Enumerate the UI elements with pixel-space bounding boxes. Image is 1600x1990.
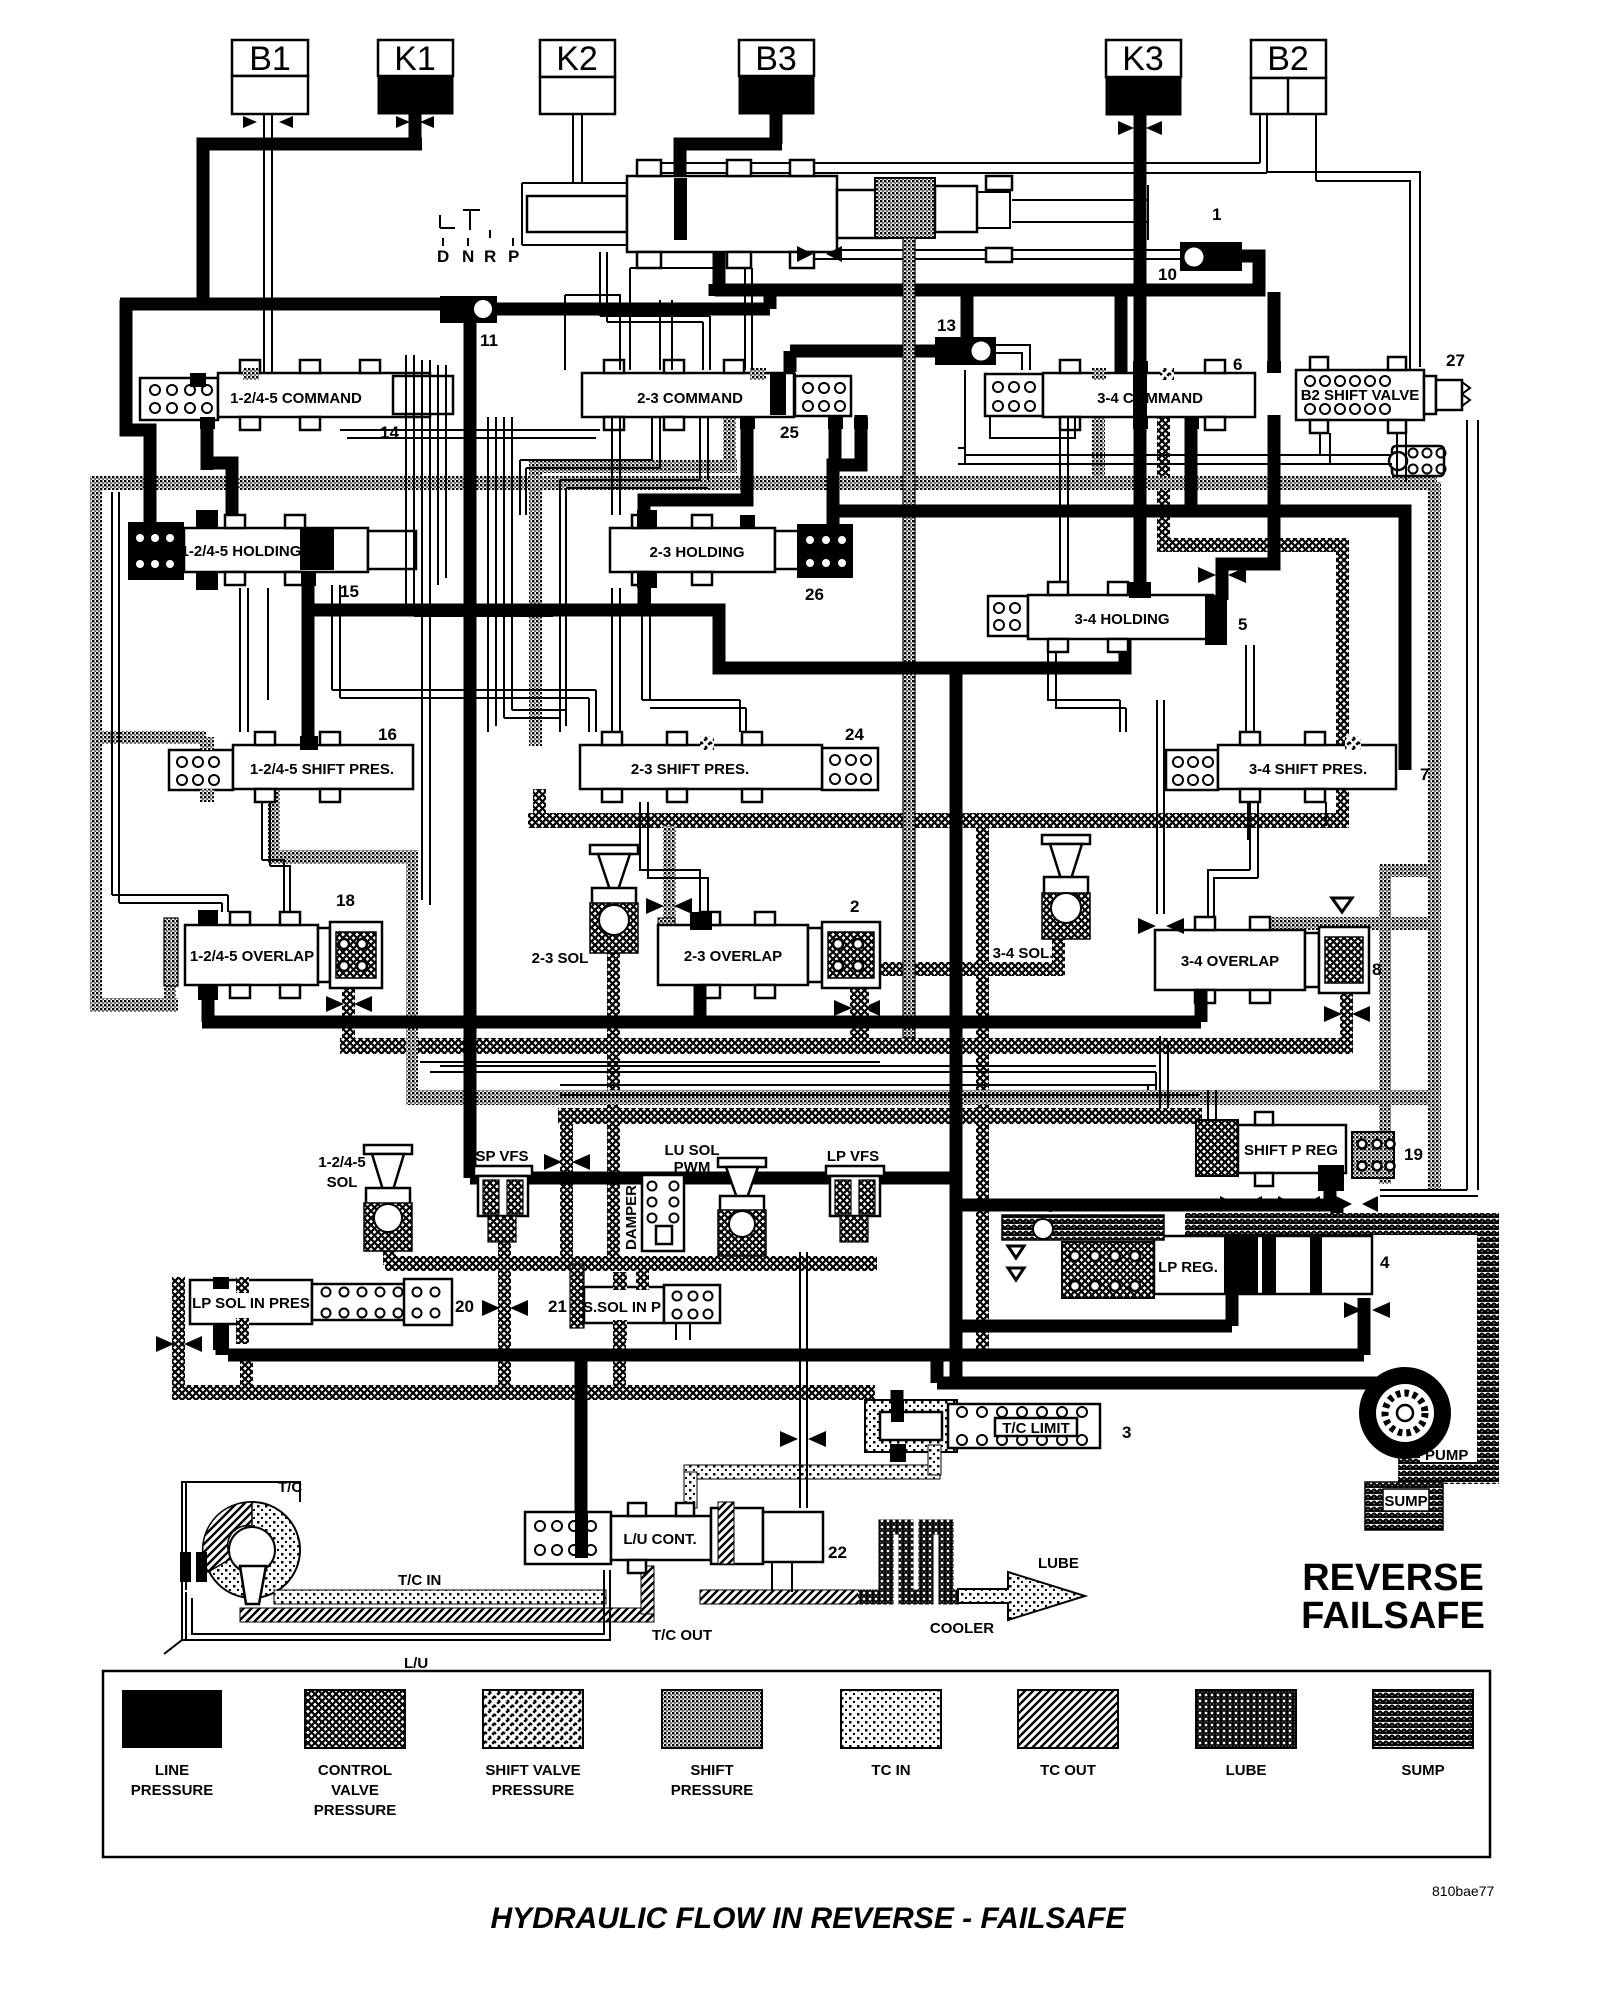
pipe: valve20 left rope vertical bbox=[172, 1277, 185, 1400]
svg-text:1-2/4-5 COMMAND: 1-2/4-5 COMMAND bbox=[230, 390, 362, 407]
svg-text:DAMPER: DAMPER bbox=[623, 1185, 640, 1250]
orifice on riser 18 bbox=[326, 996, 372, 1012]
pipe: rope vertical x978 R1 to bottom bbox=[976, 828, 989, 1353]
svg-text:LP REG.: LP REG. bbox=[1158, 1259, 1218, 1276]
svg-text:24: 24 bbox=[845, 725, 864, 744]
orifice trio right of shift p reg bbox=[1350, 1128, 1394, 1142]
wire: riser x1274 to 3-4 command bbox=[1268, 292, 1281, 372]
wire: left thin bundle bbox=[406, 355, 446, 616]
svg-text:LUBE: LUBE bbox=[1226, 1762, 1267, 1779]
pipe: control valve bus R2 bbox=[340, 1038, 1353, 1054]
svg-text:LP VFS: LP VFS bbox=[827, 1148, 879, 1165]
wire: line to pump bbox=[897, 1355, 1402, 1412]
svg-text:1: 1 bbox=[1212, 205, 1221, 224]
orifice on 2-3 overlap gray feed bbox=[646, 898, 692, 914]
pipe: 1-2/4-5 sol drop to R4 bbox=[383, 1240, 396, 1265]
orifice arrows under B1 bbox=[243, 116, 293, 128]
svg-text:FAILSAFE: FAILSAFE bbox=[1301, 1595, 1485, 1637]
svg-text:1-2/4-5 SHIFT PRES.: 1-2/4-5 SHIFT PRES. bbox=[250, 761, 394, 778]
wire: feed from command to holding15 left bbox=[207, 417, 232, 515]
lube arrow bbox=[958, 1572, 1085, 1620]
svg-text:B3: B3 bbox=[755, 40, 797, 78]
svg-text:T/C IN: T/C IN bbox=[398, 1572, 441, 1589]
orifice on riser 8 bbox=[1324, 1006, 1370, 1022]
wire: y1205 horizontal to sump bbox=[956, 1162, 1337, 1222]
orifice on valve20 vertical bbox=[156, 1336, 202, 1352]
legend: lube bbox=[1196, 1690, 1296, 1748]
pipe: sump loop around pump bbox=[1185, 1213, 1477, 1235]
svg-text:B2 SHIFT VALVE: B2 SHIFT VALVE bbox=[1301, 387, 1420, 404]
svg-text:P: P bbox=[508, 247, 519, 266]
orifice on 3-4 holding feed bbox=[1198, 567, 1246, 583]
svg-text:5: 5 bbox=[1238, 615, 1247, 634]
box B2 bbox=[1251, 40, 1326, 114]
svg-text:810bae77: 810bae77 bbox=[1432, 1883, 1495, 1899]
node 11 bbox=[440, 296, 498, 350]
pipe: control valve bus R5 bbox=[175, 1385, 875, 1400]
legend: line pressure bbox=[122, 1690, 222, 1748]
valve 18: 1-2/4-5 OVERLAP bbox=[185, 912, 318, 998]
svg-text:T/C: T/C bbox=[278, 1479, 302, 1496]
wire: B1 feed thin pair bbox=[264, 114, 272, 385]
svg-text:2-3 SOL: 2-3 SOL bbox=[532, 950, 589, 967]
node 10 bbox=[1158, 242, 1242, 284]
pipe: riser overlap2 spring to R2 bbox=[850, 972, 863, 1042]
svg-text:CONTROL: CONTROL bbox=[318, 1762, 392, 1779]
node 9 check ball bbox=[1002, 1197, 1164, 1280]
svg-text:PRESSURE: PRESSURE bbox=[492, 1782, 575, 1799]
valve 15: 1-2/4-5 HOLDING bbox=[181, 515, 416, 601]
svg-text:2-3 OVERLAP: 2-3 OVERLAP bbox=[684, 948, 782, 965]
wire: thin pair to B2 shift valve top bbox=[1267, 172, 1420, 370]
svg-text:PRESSURE: PRESSURE bbox=[671, 1782, 754, 1799]
wire: shift pres to overlap links bbox=[262, 802, 1258, 917]
pipe: gray under valve16 to x408 bbox=[268, 760, 280, 860]
svg-text:LINE: LINE bbox=[155, 1762, 189, 1779]
spring box 18 bbox=[318, 891, 382, 988]
wire: bundle under 2-3 command left bbox=[488, 417, 512, 732]
solenoid LP VFS bbox=[826, 1148, 884, 1242]
node 13 bbox=[935, 316, 996, 365]
orifice arrows under K3 bbox=[1118, 121, 1162, 135]
wire: left drop to 1-2/4-5 holding solenoid bbox=[126, 300, 150, 528]
svg-text:R: R bbox=[484, 247, 496, 266]
pipe: gray 3-4 command drop bbox=[1092, 417, 1105, 481]
svg-text:PRESSURE: PRESSURE bbox=[131, 1782, 214, 1799]
pipe: SP VFS drop bbox=[498, 1240, 511, 1392]
svg-text:3-4 HOLDING: 3-4 HOLDING bbox=[1074, 611, 1169, 628]
wire: B3 drop bbox=[680, 114, 782, 190]
wire: right long y511 bbox=[829, 415, 1405, 770]
cooler serpentine bbox=[858, 1527, 960, 1597]
legend: sump bbox=[1373, 1690, 1473, 1748]
pipe: 3-4 sol output bbox=[1052, 930, 1065, 965]
orifice on R3-R4 riser bbox=[544, 1154, 590, 1170]
wire: node13 thin pair to 3-4 command bbox=[996, 345, 1030, 370]
port: K3 land through 3-4 command bbox=[1133, 373, 1147, 417]
svg-text:SOL: SOL bbox=[327, 1174, 358, 1191]
svg-text:N: N bbox=[462, 247, 474, 266]
svg-text:3-4 SOL.: 3-4 SOL. bbox=[993, 945, 1054, 962]
wire: 2-3 command right branch bbox=[833, 415, 861, 528]
solenoid screen block of 3-4 shift pres bbox=[1166, 750, 1218, 790]
wire: riser x1121 to 3-4 command bbox=[1115, 292, 1128, 372]
wire: shift pressure drop from manual valve bbox=[903, 238, 915, 1038]
svg-text:K3: K3 bbox=[1122, 40, 1164, 78]
wire: K3 through 3-4 command to holding bbox=[1134, 415, 1147, 605]
svg-text:3: 3 bbox=[1122, 1423, 1131, 1442]
svg-text:PRESSURE: PRESSURE bbox=[314, 1802, 397, 1819]
solenoid screen w/ ball below B2 shift valve bbox=[1389, 446, 1446, 476]
solenoid LU SOL PWM bbox=[665, 1142, 767, 1256]
svg-text:15: 15 bbox=[340, 582, 359, 601]
wire: y1178 horizontal bbox=[470, 1172, 956, 1185]
svg-text:6: 6 bbox=[1233, 355, 1242, 374]
svg-text:L/U CONT.: L/U CONT. bbox=[623, 1531, 696, 1548]
wire: K1 drop bbox=[409, 114, 422, 144]
wire: long mid horizontals bbox=[420, 1062, 1156, 1090]
wire: mesh under 1-2/4-5 command bbox=[240, 585, 596, 732]
svg-text:SP VFS: SP VFS bbox=[475, 1148, 528, 1165]
pipe: rope vertical 2-3 sol bbox=[607, 950, 620, 1260]
svg-text:3-4 SHIFT PRES.: 3-4 SHIFT PRES. bbox=[1249, 761, 1367, 778]
spring box 2 bbox=[808, 897, 880, 988]
wire: node11 long vertical drop bbox=[464, 323, 477, 1178]
svg-text:SHIFT: SHIFT bbox=[690, 1762, 733, 1779]
svg-text:D: D bbox=[437, 247, 449, 266]
valve 6: 3-4 COMMAND bbox=[1043, 355, 1255, 430]
svg-text:18: 18 bbox=[336, 891, 355, 910]
orifice on SP VFS drop bbox=[482, 1300, 528, 1316]
pipe: T/C IN line bbox=[274, 1590, 606, 1604]
svg-text:19: 19 bbox=[1404, 1145, 1423, 1164]
svg-text:11: 11 bbox=[480, 331, 498, 350]
solenoid screen block of 3-4 command bbox=[985, 374, 1043, 416]
pipe: valve21 drop bbox=[613, 1340, 626, 1392]
wire: drop to L/U CONT bbox=[575, 1355, 588, 1556]
svg-text:20: 20 bbox=[455, 1297, 474, 1316]
orifice trio near valve19 top bbox=[1220, 1196, 1378, 1212]
legend: control valve pressure bbox=[305, 1690, 405, 1748]
pipe: control valve bus R3 bbox=[558, 1108, 1202, 1124]
pipe: gray horizontal y460 under 2-3 command bbox=[529, 460, 737, 473]
check arrows on gray mid bbox=[1332, 898, 1352, 946]
pump bbox=[1359, 1367, 1468, 1464]
pipe: control valve bus R4 bbox=[385, 1256, 877, 1271]
pipe: T/C OUT line bbox=[240, 1608, 654, 1622]
box K3 bbox=[1106, 40, 1181, 115]
valve 4: LP REG. bbox=[1062, 1236, 1390, 1298]
solenoid 1-2/4-5 SOL bbox=[318, 1145, 412, 1251]
solenoid block (black) of 1-2/4-5 holding bbox=[128, 522, 184, 580]
svg-text:27: 27 bbox=[1446, 351, 1465, 370]
solenoid screen block of 1-2/4-5 command bbox=[140, 378, 218, 420]
svg-text:2-3 HOLDING: 2-3 HOLDING bbox=[649, 544, 744, 561]
wire: node13 to 2-3 command bbox=[790, 351, 941, 372]
wire: B2 shift valve right thin drop bbox=[1467, 420, 1478, 1190]
pipe: gray feed 2-3 overlap left cap bbox=[663, 826, 676, 926]
gear selector labels D N R P bbox=[437, 230, 519, 266]
solenoid screen block of 1-2/4-5 shift pres bbox=[169, 750, 233, 790]
port: drop into L/U CONT bbox=[575, 1512, 588, 1558]
port: valve14 bottom bbox=[200, 417, 215, 429]
pipe: shift pressure long G1 bbox=[92, 476, 1437, 490]
wire: valve15 riser to shift pres 16 bbox=[302, 572, 315, 745]
legend: shift valve pressure bbox=[483, 1690, 583, 1748]
svg-text:LP SOL IN PRES: LP SOL IN PRES bbox=[192, 1295, 310, 1312]
svg-text:2-3 SHIFT PRES.: 2-3 SHIFT PRES. bbox=[631, 761, 749, 778]
valve 20: LP SOL IN PRES bbox=[190, 1277, 474, 1350]
valve 7: 3-4 SHIFT PRES. bbox=[1218, 732, 1429, 802]
spool pattern block bbox=[875, 178, 935, 238]
pipe: gray long G2 bbox=[406, 1090, 1436, 1105]
svg-text:3-4 OVERLAP: 3-4 OVERLAP bbox=[1181, 953, 1279, 970]
wire: black ports on holding 26 bbox=[637, 510, 657, 528]
wire: holding row links bbox=[642, 588, 1126, 732]
wire: main mid horizontal to 3-4 holding bbox=[308, 610, 1125, 668]
pipe: rope riser 2-3 shift pres to R1 bbox=[533, 789, 546, 819]
svg-text:HYDRAULIC FLOW IN REVERSE - FA: HYDRAULIC FLOW IN REVERSE - FAILSAFE bbox=[490, 1902, 1126, 1935]
svg-text:VALVE: VALVE bbox=[331, 1782, 379, 1799]
legend: tc in bbox=[841, 1690, 941, 1748]
valve 8: 3-4 OVERLAP bbox=[1155, 917, 1305, 1003]
svg-text:PWM: PWM bbox=[674, 1159, 711, 1176]
wire: riser to node13 bbox=[961, 296, 974, 337]
svg-text:B1: B1 bbox=[249, 40, 291, 78]
valve 27: B2 SHIFT VALVE bbox=[1296, 351, 1470, 433]
svg-text:21: 21 bbox=[548, 1297, 567, 1316]
port: holding valves bbox=[301, 572, 316, 586]
valve 2: 2-3 OVERLAP bbox=[658, 912, 808, 998]
pipe: gray to valve16 bbox=[92, 731, 206, 744]
sump box bbox=[1365, 1482, 1443, 1530]
svg-text:TC OUT: TC OUT bbox=[1040, 1762, 1096, 1779]
damper bbox=[623, 1175, 684, 1251]
svg-text:LUBE: LUBE bbox=[1038, 1555, 1079, 1572]
wire: L/U thin loop bbox=[186, 1570, 610, 1640]
wire: thin pair LP VFS to valve22 w/ orifice bbox=[800, 1252, 807, 1508]
orifice on manual valve to node10 line bbox=[797, 246, 842, 262]
manual valve body bbox=[522, 160, 1221, 268]
port: valve25 ports bbox=[740, 417, 755, 429]
wire: K3 drop bbox=[1134, 114, 1147, 372]
wire: long thin pair valve1 to B2 bbox=[645, 163, 1267, 173]
pipe: U under overlap 18 bbox=[90, 998, 178, 1012]
svg-text:16: 16 bbox=[378, 725, 397, 744]
wire: mesh horizontals under command row bbox=[340, 430, 600, 718]
pipe: gray right bus vertical bbox=[1428, 482, 1441, 1190]
svg-text:K2: K2 bbox=[556, 40, 598, 78]
svg-text:2: 2 bbox=[850, 897, 859, 916]
svg-text:13: 13 bbox=[937, 316, 956, 335]
pipe: tcin riser to t/c limit bbox=[684, 1465, 940, 1479]
svg-text:LU SOL: LU SOL bbox=[665, 1142, 720, 1159]
svg-text:TC IN: TC IN bbox=[871, 1762, 910, 1779]
wire: mesh under 3-4 command bbox=[990, 417, 1254, 914]
wire: big vertical x956 bbox=[950, 668, 963, 1383]
svg-text:1-2/4-5: 1-2/4-5 bbox=[318, 1154, 366, 1171]
svg-text:SUMP: SUMP bbox=[1384, 1493, 1427, 1510]
port: valve6 ports bbox=[1133, 361, 1148, 373]
wire: black cap right of 3-4 holding bbox=[1205, 595, 1227, 645]
orifice on riser 2 bbox=[834, 1000, 880, 1016]
svg-text:1-2/4-5 HOLDING: 1-2/4-5 HOLDING bbox=[181, 543, 302, 560]
svg-text:SHIFT P REG: SHIFT P REG bbox=[1244, 1142, 1338, 1159]
svg-text:1-2/4-5 OVERLAP: 1-2/4-5 OVERLAP bbox=[190, 948, 314, 965]
orifice arrows under K1 bbox=[396, 116, 434, 128]
wire: main bottom line bbox=[222, 1298, 1364, 1355]
wire: valve1 lower thin mesh bbox=[600, 252, 752, 370]
svg-text:14: 14 bbox=[380, 423, 399, 442]
manual valve detent lever bbox=[440, 210, 480, 230]
wire: thin pair manual valve to node10 bbox=[790, 250, 1183, 259]
valve 5: 3-4 HOLDING bbox=[1028, 582, 1247, 652]
orifice on 3-4 overlap feed bbox=[1138, 918, 1184, 934]
wire: B2 thin drops bbox=[1260, 114, 1316, 181]
pipe: riser overlap18 spring to R2 bbox=[342, 985, 355, 1043]
T/C assembly bbox=[164, 1479, 302, 1654]
svg-text:K1: K1 bbox=[394, 40, 436, 78]
pipe: control valve bus R1 bbox=[528, 813, 1349, 828]
wire: thin pair from screen to left bbox=[958, 370, 1392, 464]
spring box 8 bbox=[1305, 927, 1381, 993]
svg-text:25: 25 bbox=[780, 423, 799, 442]
svg-text:4: 4 bbox=[1380, 1253, 1390, 1272]
svg-text:7: 7 bbox=[1420, 765, 1429, 784]
wire: y1326 LP REG feed bbox=[956, 1290, 1232, 1326]
wire: left bus thin pair bbox=[112, 492, 228, 912]
legend: shift pressure bbox=[662, 1690, 762, 1748]
solenoid 3-4 SOL bbox=[993, 835, 1090, 962]
wire: thick ports on holding 15 bbox=[196, 510, 218, 528]
wire: mesh under 2-3 command bbox=[520, 417, 708, 732]
port: manual valve B3 land bbox=[674, 178, 687, 240]
valve 24: 2-3 SHIFT PRES. bbox=[580, 725, 864, 802]
wire: 2-3 holding stub bbox=[638, 578, 651, 612]
valve 22: L/U CONT. bbox=[525, 1502, 847, 1592]
pipe: gray vertical x529 to 2-3 shift pres bbox=[529, 462, 542, 746]
pipe: rope stub below R5 bbox=[240, 1358, 253, 1388]
solenoid screen block of 3-4 holding bbox=[988, 596, 1028, 636]
svg-text:10: 10 bbox=[1158, 265, 1177, 284]
svg-text:L/U: L/U bbox=[404, 1655, 428, 1672]
valve 3: T/C LIMIT bbox=[865, 1400, 1131, 1462]
svg-text:T/C LIMIT: T/C LIMIT bbox=[1002, 1420, 1070, 1437]
svg-text:S.SOL IN P: S.SOL IN P bbox=[583, 1299, 661, 1316]
wire: K2 feed thin pair bbox=[573, 114, 582, 182]
valve 21: S.SOL IN P bbox=[548, 1262, 720, 1340]
orifice on LP REG right riser bbox=[1344, 1302, 1390, 1318]
wire: misc around valve19 bbox=[1160, 1036, 1478, 1196]
port: drop into T/C LIMIT bbox=[891, 1400, 904, 1422]
svg-text:9: 9 bbox=[1046, 1197, 1055, 1216]
svg-text:2-3 COMMAND: 2-3 COMMAND bbox=[637, 390, 743, 407]
valve 16: 1-2/4-5 SHIFT PRES. bbox=[233, 725, 413, 802]
wire: node11 to node10 stepped main bbox=[497, 246, 1259, 309]
wire: 2-3 command to 2-3 holding pi bbox=[644, 415, 747, 524]
svg-text:REVERSE: REVERSE bbox=[1302, 1557, 1484, 1599]
svg-text:22: 22 bbox=[828, 1543, 847, 1562]
svg-text:SUMP: SUMP bbox=[1401, 1762, 1444, 1779]
svg-text:26: 26 bbox=[805, 585, 824, 604]
box B3 bbox=[739, 40, 814, 114]
pipe: riser overlap8 spring to R2 bbox=[1340, 990, 1353, 1042]
solenoid 2-3 SOL bbox=[532, 845, 638, 967]
svg-text:8: 8 bbox=[1372, 960, 1381, 979]
svg-text:3-4 COMMAND: 3-4 COMMAND bbox=[1097, 390, 1203, 407]
solenoid screen block of 2-3 command bbox=[795, 376, 851, 416]
valve 26: 2-3 HOLDING bbox=[610, 515, 800, 585]
valve 19: SHIFT P REG bbox=[1196, 1112, 1423, 1191]
wire: extra mid horizontals bbox=[440, 1066, 1200, 1095]
pipe: control valve pressure from 3-4 command bbox=[1157, 415, 1170, 545]
solenoid SP VFS bbox=[474, 1148, 532, 1242]
pipe: left shift pressure bus vertical bbox=[90, 476, 102, 1011]
pipe: gray to valve 19 bbox=[1388, 864, 1441, 877]
wire: B2 shift valve lower drops bbox=[1320, 433, 1406, 482]
box K2 bbox=[540, 40, 615, 114]
wire: overlap main line bbox=[202, 985, 1201, 1022]
box K1 bbox=[378, 40, 453, 114]
legend: tc out bbox=[1018, 1690, 1118, 1748]
wire: right side long verticals from valve7 bbox=[1248, 802, 1326, 840]
svg-text:PUMP: PUMP bbox=[1425, 1447, 1468, 1464]
svg-text:T/C OUT: T/C OUT bbox=[652, 1627, 712, 1644]
wire: left main to node 11 bbox=[120, 298, 445, 311]
solenoid block (black) of 2-3 holding bbox=[797, 524, 853, 604]
box B1 bbox=[232, 40, 308, 114]
valve 14: 1-2/4-5 COMMAND bbox=[190, 360, 453, 442]
svg-text:B2: B2 bbox=[1267, 40, 1309, 78]
svg-text:SHIFT VALVE: SHIFT VALVE bbox=[485, 1762, 580, 1779]
valve 25: 2-3 COMMAND bbox=[582, 360, 799, 442]
pipe: rope vertical R3 to R4 bbox=[560, 1124, 573, 1264]
wire: K1 to left main bbox=[203, 144, 422, 304]
solenoid screen block of 2-3 shift pres (right side) bbox=[822, 748, 878, 790]
svg-text:COOLER: COOLER bbox=[930, 1620, 994, 1637]
gray cap of 1-2/4-5 overlap bbox=[164, 918, 178, 986]
pipe: gray mid w/ checkvalve bbox=[1268, 917, 1430, 930]
